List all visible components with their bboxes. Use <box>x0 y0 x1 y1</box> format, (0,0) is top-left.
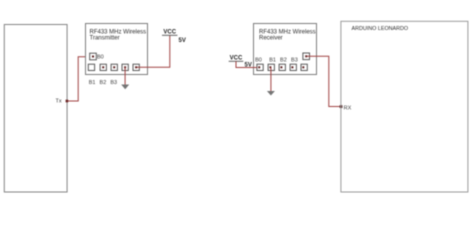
pin 1 of transmitter (no dot) <box>88 64 94 70</box>
pin 2 of receiver (GND) <box>268 64 274 70</box>
junction at Tx <box>66 100 69 103</box>
pin B0 of transmitter <box>90 53 97 60</box>
svg-text:RF433 MHz Wireless: RF433 MHz Wireless <box>90 29 147 35</box>
pin 5 of receiver <box>301 64 307 70</box>
svg-text:RF433 MHz Wireless: RF433 MHz Wireless <box>259 29 316 35</box>
block: Arduino Leonardo rectangle <box>341 21 468 192</box>
svg-text:B2: B2 <box>280 58 287 64</box>
svg-text:VCC: VCC <box>163 29 176 35</box>
ground symbol (receiver) <box>267 91 275 96</box>
svg-text:Receiver: Receiver <box>259 36 283 42</box>
pin 3 of receiver <box>279 64 285 70</box>
svg-text:B1: B1 <box>89 80 96 86</box>
svg-text:B1: B1 <box>269 58 276 64</box>
svg-text:Tx: Tx <box>55 98 61 104</box>
block: left module rectangle <box>4 25 67 193</box>
power symbol VCC (receiver) <box>229 56 244 62</box>
svg-text:B3: B3 <box>110 80 117 86</box>
power symbol VCC (transmitter) <box>162 29 177 35</box>
pin 5 of transmitter (VCC) <box>133 64 139 70</box>
svg-text:5V: 5V <box>179 38 186 44</box>
svg-text:ARDUINO LEONARDO: ARDUINO LEONARDO <box>352 26 409 32</box>
svg-text:B0: B0 <box>255 58 262 64</box>
ground symbol (transmitter) <box>121 85 129 90</box>
svg-text:B0: B0 <box>97 55 104 61</box>
pin 4 of transmitter (GND) <box>122 64 128 70</box>
wire: receiver VCC to pin1 <box>236 61 257 67</box>
svg-text:Transmitter: Transmitter <box>90 36 120 42</box>
svg-text:RX: RX <box>344 105 352 111</box>
wire: receiver pin2 to ground <box>270 67 272 91</box>
svg-text:VCC: VCC <box>230 56 243 62</box>
wire: transmitter pin4 to ground <box>124 67 126 84</box>
IC U2: RF433 MHz Wireless Receiver box <box>254 24 317 75</box>
wire: transmitter pin5 to VCC <box>137 35 170 67</box>
pin 4 of receiver <box>290 64 296 70</box>
pin 2 of transmitter <box>100 64 106 70</box>
svg-text:B3: B3 <box>291 58 298 64</box>
junction at RX <box>340 105 343 108</box>
pin data-out of receiver (top right) <box>303 53 310 60</box>
IC U1: RF433 MHz Wireless Transmitter box <box>86 24 148 75</box>
pin 1 of receiver (VCC) <box>257 64 263 70</box>
svg-text:B2: B2 <box>100 80 107 86</box>
pin 3 of transmitter <box>111 64 117 70</box>
wire: Tx to transmitter B0 <box>67 57 90 101</box>
wire: receiver data pin to Arduino RX <box>307 56 341 106</box>
